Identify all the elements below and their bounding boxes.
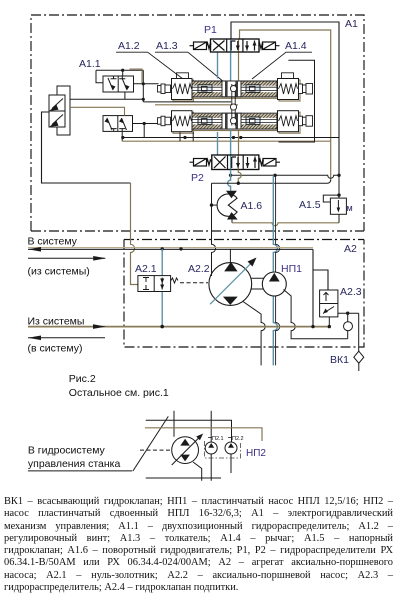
svg-text:A1.2: A1.2 <box>118 40 140 52</box>
link between spools with ball joints <box>230 84 236 126</box>
svg-text:ВК1: ВК1 <box>330 354 349 366</box>
wire teal НП1 column <box>273 175 277 365</box>
rails below bottom spool <box>123 137 339 139</box>
spring box right <box>282 73 294 79</box>
svg-text:П2.2: П2.2 <box>232 436 244 442</box>
valve A1.1 upper section <box>96 70 231 102</box>
wire line1 from P2 to right column <box>231 175 339 178</box>
wire: lever valve left line down to A2.1 <box>42 112 131 183</box>
valve P1 (3-position solenoid) <box>211 39 260 52</box>
annotation arrow из системы <box>28 257 105 259</box>
shaft coupling <box>251 278 264 289</box>
wire from В систему to pump top <box>229 249 231 263</box>
transducer lever valve (mechanism) <box>49 86 70 135</box>
svg-text:P1: P1 <box>204 24 217 36</box>
svg-text:A2.1: A2.1 <box>135 263 157 275</box>
A2 assembly dash-dot boundary <box>124 240 364 348</box>
wire vertical x211 into pump <box>211 273 213 276</box>
check valve ВК1 <box>354 351 364 363</box>
svg-text:A1.3: A1.3 <box>156 40 178 52</box>
right housing bracket (lever A1.4) <box>279 60 315 142</box>
mini diagram НП2 <box>133 411 232 481</box>
check valve A2.4 <box>344 322 353 331</box>
svg-text:В систему: В систему <box>28 236 78 248</box>
valve A1.1 lower section <box>103 116 159 142</box>
wire return line y223 with jog <box>232 223 339 226</box>
svg-text:П2.1: П2.1 <box>212 436 224 442</box>
svg-text:Остальное см. рис.1: Остальное см. рис.1 <box>69 387 169 399</box>
valve A1.5 pressure relief <box>323 175 346 223</box>
wire line2 <box>212 180 331 183</box>
svg-text:Рис.2: Рис.2 <box>69 373 96 385</box>
svg-text:A2.3: A2.3 <box>340 286 362 298</box>
svg-text:м: м <box>347 203 353 213</box>
valve P2 <box>212 155 259 170</box>
wires P1 pilot verticals through valve <box>230 39 232 81</box>
system line В систему <box>28 247 313 249</box>
svg-text:(из системы): (из системы) <box>28 266 90 278</box>
wire A1.6 bottom to return line <box>231 220 233 223</box>
pump П2.2 <box>225 442 237 454</box>
svg-text:A1.1: A1.1 <box>79 58 101 70</box>
svg-text:В гидросистему: В гидросистему <box>28 445 106 457</box>
svg-text:A2.2: A2.2 <box>188 263 210 275</box>
svg-text:A1.4: A1.4 <box>285 40 307 52</box>
pump A2.2 axial piston <box>209 263 252 306</box>
svg-text:A1.6: A1.6 <box>241 200 263 212</box>
valve P1 brackets above <box>231 22 339 175</box>
svg-text:Из системы: Из системы <box>28 316 85 328</box>
system line Из системы <box>28 326 329 328</box>
svg-text:A1: A1 <box>345 18 358 30</box>
A1 assembly dash-dot boundary <box>31 15 364 231</box>
pump П2.1 <box>205 442 217 454</box>
valve A2.3 <box>320 290 359 371</box>
svg-text:НП2: НП2 <box>246 448 266 459</box>
wire brown P2 down with jog over line1 <box>238 170 241 184</box>
distributor spool assembly bottom <box>158 111 313 134</box>
wire pump outputs down <box>243 302 265 366</box>
wire A1.6 enclosure left <box>212 183 216 273</box>
svg-text:НП1: НП1 <box>281 263 302 275</box>
wire from bracket to right <box>70 98 143 100</box>
end caps left <box>158 86 162 93</box>
annotation arrow в систему <box>28 337 105 339</box>
svg-text:(в систему): (в систему) <box>28 343 83 355</box>
wire teal P2 down to A1.6 with jog <box>228 170 231 191</box>
svg-text:A2: A2 <box>344 243 357 255</box>
spring box left <box>177 73 189 79</box>
valve A2.1 null-spool <box>161 249 163 327</box>
svg-text:P2: P2 <box>191 172 204 184</box>
distributor spool assembly top <box>158 73 313 101</box>
wire brown wrap of valve A1.1 <box>130 69 143 83</box>
pump НП2 main circle <box>172 437 199 464</box>
pump НП1 <box>262 272 286 296</box>
rotary actuator A1.6 <box>217 191 238 220</box>
dash-dot box around П2 pumps <box>205 441 241 458</box>
svg-text:A1.5: A1.5 <box>299 199 321 211</box>
end caps right <box>299 84 303 94</box>
wire brown feed to lower valve <box>70 107 125 115</box>
svg-text:управления станка: управления станка <box>28 458 121 470</box>
